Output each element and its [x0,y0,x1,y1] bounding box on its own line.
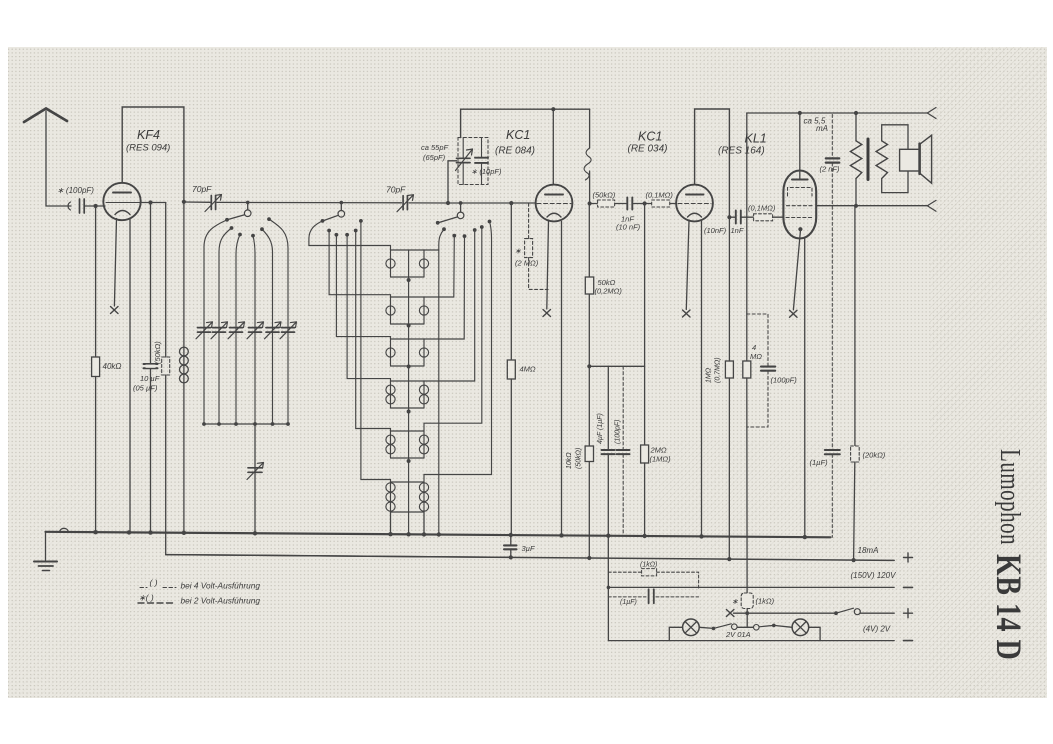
bus1 junction nodes [93,530,807,539]
svg-text:mA: mA [816,124,828,133]
bus2 HT plus rail [166,555,895,561]
resistor R-2M-dashed grid leak [525,203,548,289]
resistor R-50k-dashed [162,357,170,375]
legend dash sample 2V [138,602,176,604]
x-mark filament tap [726,610,734,617]
svg-text:70pF: 70pF [386,185,406,195]
node [446,201,450,205]
trimmer T2 70pF [397,195,414,212]
svg-text:(50kΩ): (50kΩ) [593,191,616,200]
resistor R-2M-1M [641,445,649,534]
legend dash sample 4V [140,587,176,589]
wire [644,204,646,446]
switch lamp right [754,624,793,630]
switch lamp left [699,624,753,630]
svg-text:KF4: KF4 [137,128,160,142]
svg-text:(RES 094): (RES 094) [126,143,170,154]
tube KL1 [783,113,816,239]
svg-text:(1kΩ): (1kΩ) [640,562,657,569]
wire KF4 legs [114,219,116,307]
wire grid out [140,202,166,204]
svg-text:(4V) 2V: (4V) 2V [863,625,891,634]
plus terminal [904,553,913,562]
svg-text:Lumophon: Lumophon [994,449,1025,545]
svg-text:(1kΩ): (1kΩ) [756,597,775,606]
trimmer bank 6x [196,322,213,339]
svg-text:2MΩ: 2MΩ [650,446,667,455]
capacitor C-3uF [504,545,517,549]
svg-text:(2 MΩ): (2 MΩ) [515,259,539,268]
svg-text:10 µF: 10 µF [140,374,160,383]
wire 4uF branch [607,366,609,450]
svg-text:KC1: KC1 [638,130,662,144]
svg-text:(65pF): (65pF) [423,153,446,162]
node [588,201,592,205]
node [727,215,731,219]
svg-text:(10nF): (10nF) [704,226,727,235]
svg-text:KC1: KC1 [506,128,530,142]
svg-text:4MΩ: 4MΩ [520,365,536,374]
node [854,204,858,208]
tube KC1a [536,185,573,222]
wire KC1b legs [686,221,689,310]
svg-text:18mA: 18mA [858,546,879,555]
resistor R-4M-KL1 [743,361,751,593]
svg-text:4µF (1µF): 4µF (1µF) [597,413,604,444]
wire bus1 to filament [607,536,609,641]
capacitor C-1uF-hum [649,589,654,603]
x-mark filament KF4 [111,307,119,314]
lamp LP1 [669,619,699,641]
capacitor C-ant 100pF [68,199,105,213]
lamp LP2 [792,619,820,641]
node grid-KF4 [94,204,98,208]
plus terminal [904,609,913,618]
node [182,200,186,204]
node [509,201,513,205]
capacitor C-100pF-dashed branch [617,366,630,534]
wire bias line KL1 [746,113,748,361]
wire padder [254,424,256,532]
resistor R-4M [507,360,515,534]
wire AVC rail [589,365,644,367]
HT minus rail [608,586,894,588]
minus terminal [904,586,913,588]
node [148,200,152,204]
switch S3 wave band [436,203,492,238]
wire hop [60,528,69,532]
svg-text:70pF: 70pF [192,184,212,194]
svg-text:(50kΩ): (50kΩ) [153,341,162,364]
svg-text:(150V) 120V: (150V) 120V [851,571,897,580]
wire S1 bottom bus [204,423,288,425]
svg-text:( ): ( ) [150,578,158,588]
node [643,201,647,205]
connector arrow left [927,200,936,211]
wire KC1a legs [547,221,549,310]
resistor R-10k [585,446,593,558]
capacitor C-100pF-KL1 dashed box [747,314,768,427]
capacitor box KC1a grid (dashed) [458,138,488,185]
coil L-anode-KF4 [180,202,189,533]
svg-text:(RE 034): (RE 034) [628,144,668,155]
capacitor C-10uF [144,364,158,368]
wire [510,203,512,360]
wire [510,534,512,558]
wire [150,203,152,533]
capacitor C-4uF [602,450,615,454]
svg-text:∗: ∗ [732,597,739,606]
svg-text:ca 55pF: ca 55pF [421,143,449,152]
resistor R-1k-dashed hum [608,569,698,597]
resistor R-50k-cathode [585,204,593,295]
node [854,111,858,115]
switch S1 wave band [225,202,271,237]
tube KC1b [676,185,713,222]
resistor R-0.1M-dashed [652,200,670,207]
wire S2 fan to coils [309,221,391,482]
node AVC [587,364,591,368]
node anode KC1a [551,107,555,111]
filament plus rail [734,608,895,615]
transformer T1 secondary [876,141,887,179]
svg-text:(10 nF): (10 nF) [616,223,641,232]
svg-text:(1MΩ): (1MΩ) [650,455,672,464]
trimmer C-padder [247,463,264,480]
anode box KC1b [695,109,730,217]
svg-text:2V 01A: 2V 01A [725,630,751,639]
wire secondary loop [882,125,908,193]
svg-text:(20kΩ): (20kΩ) [863,451,886,460]
wire HT top rail KL1 [747,112,928,114]
x-mark filament KC1b [683,310,691,317]
wire S3 fan to coils [424,222,492,533]
antenna [24,109,71,207]
svg-text:(1µF): (1µF) [810,458,829,467]
transformer T1 primary [855,113,857,206]
wire [746,609,748,628]
node [798,111,802,115]
svg-text:(RE 084): (RE 084) [495,146,535,157]
svg-text:1MΩ: 1MΩ [706,367,713,383]
switch S2 wave band [321,203,363,237]
wire KL1 legs [793,231,800,310]
anode box KF4 [122,107,184,202]
resistor R-0.1M-KL1-dashed [754,214,784,221]
svg-text:1nF: 1nF [731,226,744,235]
svg-text:∗ (100pF): ∗ (100pF) [57,186,94,195]
speaker [900,135,932,183]
wire [95,206,97,357]
trimmer T1 70pF [205,195,222,212]
wire grid-cap riser [448,161,457,203]
svg-text:(2 nF): (2 nF) [820,165,841,174]
minus terminal [904,640,913,642]
wire screen rail [816,205,928,207]
svg-text:(100pF): (100pF) [771,376,798,385]
svg-text:10kΩ: 10kΩ [566,452,573,469]
svg-text:(0,1MΩ): (0,1MΩ) [748,204,776,213]
trimmer C-55pF [456,138,473,185]
wire to bus2 [166,375,510,557]
svg-text:∗ (10pF): ∗ (10pF) [471,167,502,176]
wire [607,454,609,534]
svg-text:(50kΩ): (50kΩ) [576,448,583,469]
capacitor C-1uF-output [825,450,840,537]
connector arrow left [927,108,936,119]
transformer core [867,139,870,180]
wire [588,294,590,446]
svg-text:∗: ∗ [515,247,522,256]
ground [34,532,57,571]
wire main bus top [184,202,536,203]
svg-text:40kΩ: 40kΩ [103,362,122,371]
wire output RC [854,206,856,446]
resistor R-50k-dashed series [598,200,615,207]
x-mark filament KC1a [543,310,551,317]
anode box KC1a [461,109,590,137]
svg-text:(0,1MΩ): (0,1MΩ) [646,191,674,200]
capacitor C-2nF dashed branch [826,115,840,450]
wire anode drop with scribble [589,109,591,148]
svg-text:(1µF): (1µF) [620,599,637,606]
bus1 chassis [46,532,831,538]
wire anode lead KC1a [552,109,554,185]
wire S1 fan [204,219,288,424]
capacitor C-10pF [475,138,488,185]
filament minus rail [608,640,894,642]
svg-text:KL1: KL1 [745,132,767,146]
svg-text:(05 µF): (05 µF) [133,384,158,393]
svg-text:MΩ: MΩ [750,352,762,361]
capacitor C-1nF coupling [627,198,632,210]
resistor R-20k-dashed [851,446,860,560]
svg-text:bei 4 Volt-Ausführung: bei 4 Volt-Ausführung [181,581,261,591]
capacitor C-1nF-KL1 [729,211,753,224]
svg-text:bei 2 Volt-Ausführung: bei 2 Volt-Ausführung [181,596,261,606]
svg-text:∗( ): ∗( ) [139,593,154,603]
svg-text:3µF: 3µF [522,544,535,553]
resistor R-1M-0.7M [725,217,733,559]
resistor R-40k [92,357,100,532]
svg-text:(0,2MΩ): (0,2MΩ) [595,287,623,296]
svg-text:4: 4 [752,343,756,352]
resistor R-1k-star dashed [741,593,753,609]
svg-text:KB 14 D: KB 14 D [988,554,1028,660]
svg-text:(0,7MΩ): (0,7MΩ) [715,357,722,383]
tube KF4 [103,183,140,220]
x-mark filament KL1 [790,310,798,317]
svg-text:(100pF): (100pF) [615,419,622,444]
svg-text:(RES 164): (RES 164) [718,146,765,157]
coil bank [386,250,429,533]
wire [165,203,167,358]
wire KC1a plate out [590,203,676,205]
